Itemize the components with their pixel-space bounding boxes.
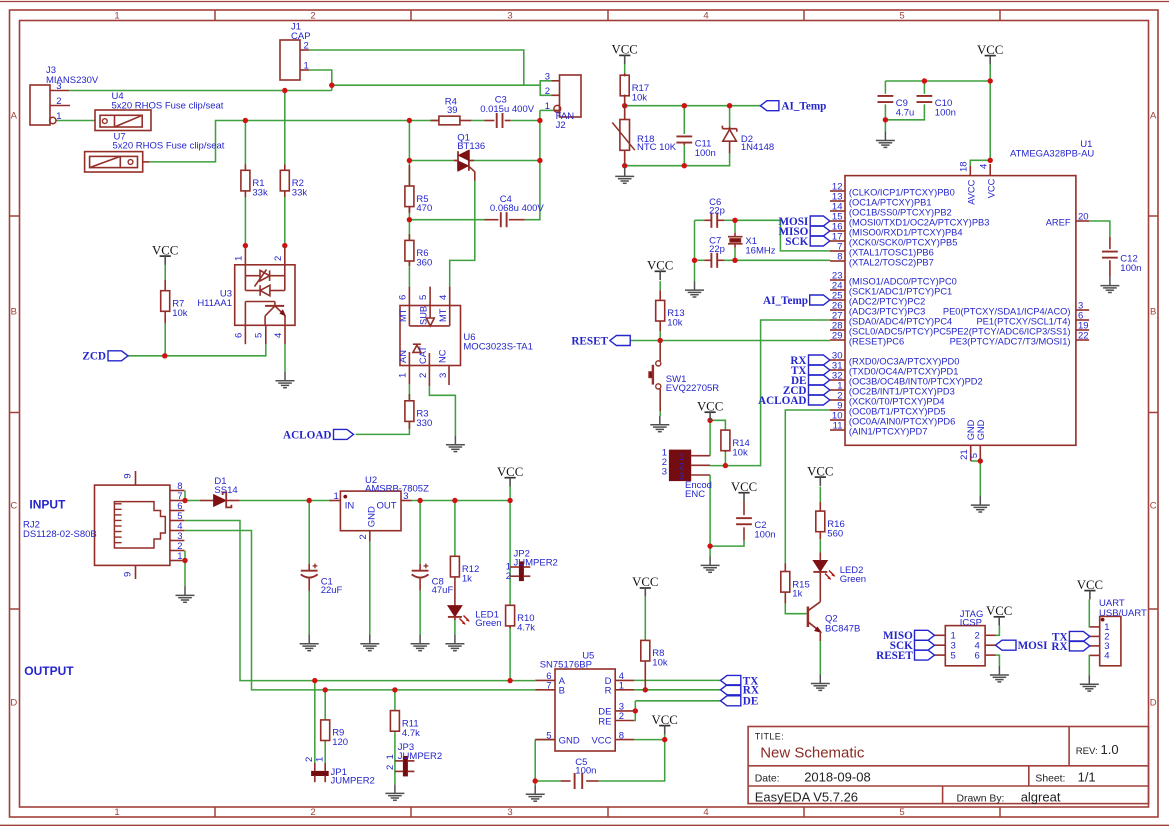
svg-text:MOC3023S-TA1: MOC3023S-TA1: [463, 342, 533, 353]
svg-text:470: 470: [416, 203, 432, 214]
fuse U7: [85, 132, 225, 172]
svg-text:20: 20: [1078, 212, 1089, 223]
svg-text:3: 3: [507, 807, 512, 818]
svg-text:AVCC: AVCC: [966, 179, 976, 204]
wire R12 top: [454, 501, 456, 557]
svg-text:B: B: [11, 306, 17, 317]
capacitor C10: [917, 96, 956, 118]
wire XTAL1 to U1.7: [735, 220, 830, 251]
svg-text:(SDA0/ADC4/PTCY)PC4: (SDA0/ADC4/PTCY)PC4: [849, 317, 952, 327]
svg-text:1k: 1k: [462, 574, 472, 585]
net flag DE: [809, 375, 830, 385]
wire AVCC jog: [970, 160, 990, 165]
junction dot: [162, 353, 167, 358]
svg-text:PE2(PTCY/ADC6/ICP3/SS1): PE2(PTCY/ADC6/ICP3/SS1): [951, 327, 1070, 337]
svg-text:8: 8: [837, 252, 842, 263]
svg-text:0.068u 400V: 0.068u 400V: [490, 203, 545, 214]
wire U5.VCC: [634, 739, 665, 741]
svg-text:2: 2: [619, 711, 624, 722]
junction dot: [407, 158, 412, 163]
wire J1.2: [309, 50, 524, 85]
wire Q1 gate to U6.4: [450, 181, 475, 287]
svg-text:SS14: SS14: [214, 485, 237, 496]
svg-text:2: 2: [545, 86, 550, 97]
svg-text:OUT: OUT: [376, 501, 396, 512]
svg-text:(OC2B/INT1/PTCXY)PD3: (OC2B/INT1/PTCXY)PD3: [849, 387, 955, 397]
wire RJ2.5 bus A: [184, 521, 535, 681]
svg-text:4: 4: [273, 333, 284, 338]
svg-text:C: C: [1150, 500, 1157, 511]
net flag TX uart: [1069, 631, 1089, 641]
capacitor C7: [704, 236, 725, 268]
svg-text:VCC: VCC: [977, 43, 1003, 57]
connector J1 CAP: [280, 22, 311, 81]
svg-text:(XTAL2/TOSC2)PB7: (XTAL2/TOSC2)PB7: [849, 258, 934, 268]
svg-text:1: 1: [233, 256, 244, 261]
ground U6.2: [446, 436, 465, 452]
svg-text:5: 5: [418, 295, 429, 300]
svg-text:2: 2: [418, 373, 429, 378]
svg-text:(OC0B/T1/PTCXY)PD5: (OC0B/T1/PTCXY)PD5: [849, 407, 946, 417]
ground Q2: [811, 675, 830, 691]
ground UART: [1080, 675, 1099, 691]
wire XTAL2 to U1.8: [724, 259, 830, 261]
wire RJ2.1 to gnd: [184, 561, 186, 587]
junction dot: [988, 158, 993, 163]
svg-text:360: 360: [416, 258, 432, 269]
svg-text:New Schematic: New Schematic: [760, 744, 865, 761]
wire to R5 (gap): [408, 166, 410, 186]
svg-text:ENC: ENC: [685, 489, 705, 500]
svg-text:GND: GND: [366, 506, 377, 527]
wire R18 to gnd net: [624, 150, 626, 167]
junction dot: [537, 158, 542, 163]
wire GND stub join: [535, 739, 555, 741]
wire RESET to U1.29: [630, 340, 830, 342]
wire R16 to LED2: [819, 539, 821, 553]
wire to Q1 MT: [409, 160, 457, 162]
svg-text:2018-09-08: 2018-09-08: [804, 770, 871, 785]
wire VCC to C5: [599, 734, 665, 781]
wire U1 GND down: [979, 461, 981, 496]
wire X1 bottom: [734, 248, 736, 261]
led LED1 Green: [448, 606, 502, 629]
svg-text:PE1(PTCXY/SCL1/T4): PE1(PTCXY/SCL1/T4): [976, 317, 1070, 327]
svg-text:SN75176BP: SN75176BP: [540, 660, 592, 671]
svg-text:3: 3: [545, 71, 550, 82]
resistor R5: [405, 165, 432, 214]
svg-text:39: 39: [447, 105, 458, 116]
capacitor C9: [878, 96, 915, 118]
wire C10 top: [923, 81, 925, 94]
svg-text:100n: 100n: [935, 107, 956, 118]
wire Q1 to FAN net: [470, 160, 540, 162]
wire C7 left gap: [695, 259, 705, 261]
svg-text:22uF: 22uF: [321, 585, 343, 596]
capacitor C4: [485, 194, 545, 227]
wire down to R1: [244, 121, 246, 166]
wire FAN.1 down to C4: [525, 110, 540, 219]
wire to FAN.2: [540, 85, 551, 95]
svg-text:1: 1: [385, 754, 396, 759]
svg-text:1/1: 1/1: [1078, 770, 1096, 785]
svg-text:(OC3B/OC4B/INT0/PTCXY)PD2: (OC3B/OC4B/INT0/PTCXY)PD2: [849, 377, 983, 387]
U1 right pins: [943, 212, 1089, 347]
wire J1.1: [309, 70, 332, 91]
svg-text:2: 2: [310, 807, 315, 818]
junction dot: [922, 78, 927, 83]
wire D2 top: [729, 106, 731, 127]
svg-text:9: 9: [123, 572, 134, 577]
svg-text:3: 3: [679, 471, 684, 482]
capacitor C3: [480, 95, 535, 128]
svg-text:11: 11: [833, 421, 843, 432]
ground C12: [1100, 277, 1119, 293]
wire R17 to R18: [624, 95, 626, 120]
wire U2.GND to gnd: [369, 541, 371, 635]
junction dot: [417, 498, 422, 503]
svg-text:BT136: BT136: [457, 141, 485, 152]
svg-text:DE: DE: [743, 696, 759, 708]
capacitor C5: [561, 757, 599, 789]
net flag RX: [809, 355, 830, 365]
svg-text:SCK: SCK: [785, 236, 808, 248]
wire C10 bottom: [885, 104, 924, 119]
wire to gnd xtal: [694, 260, 696, 281]
wire R5R6 node to C4: [409, 219, 484, 221]
svg-text:100n: 100n: [575, 766, 596, 777]
diode D2 1N4148: [722, 126, 774, 154]
junction dot: [622, 103, 627, 108]
net flag MISO: [810, 226, 830, 236]
wire UART.1 to VCC: [1088, 599, 1091, 627]
ground C1: [300, 635, 319, 651]
svg-text:1: 1: [619, 681, 624, 692]
net flag SCK: [810, 236, 830, 246]
wire R3 to ACLOAD: [356, 421, 410, 434]
wire U7 to R4/C3 net: [149, 121, 430, 162]
wire C1 to gnd: [308, 591, 310, 636]
svg-text:EasyEDA V5.7.26: EasyEDA V5.7.26: [755, 789, 858, 804]
junction dot: [707, 418, 712, 423]
ground JP3: [385, 784, 404, 800]
junction dot: [723, 463, 728, 468]
junction dot: [182, 498, 187, 503]
wire RJ2.8 join: [184, 491, 186, 501]
junction dot: [732, 218, 737, 223]
svg-text:(MOSI0/TXD1/OC2A/PTCXY)PB3: (MOSI0/TXD1/OC2A/PTCXY)PB3: [849, 218, 990, 228]
wire ZCD to U3.5: [128, 344, 266, 356]
resistor R9: [321, 719, 348, 748]
svg-text:9: 9: [123, 474, 134, 479]
svg-text:5: 5: [546, 730, 551, 741]
junction dot: [682, 163, 687, 168]
wire R10 to bus A: [509, 626, 511, 680]
svg-text:18: 18: [959, 161, 970, 172]
wire to AI_Temp flag: [625, 105, 761, 107]
svg-text:ACLOAD: ACLOAD: [283, 429, 331, 441]
net flag MISO jtag: [915, 630, 935, 640]
connector J2 FAN: [545, 71, 581, 131]
wire C8 top: [419, 501, 421, 565]
wire R4 to C3: [471, 120, 484, 122]
junction dot: [643, 687, 648, 692]
svg-text:D: D: [1150, 697, 1157, 708]
svg-text:AN: AN: [398, 350, 408, 363]
svg-text:330: 330: [416, 418, 432, 429]
wire to Q1/R5 node: [408, 121, 410, 165]
junction dot: [537, 118, 542, 123]
resistor R17: [620, 73, 649, 106]
svg-text:A: A: [11, 110, 18, 121]
ground LED1: [445, 635, 464, 651]
wire C6 C7 left: [694, 220, 696, 260]
svg-text:4: 4: [703, 807, 708, 818]
svg-text:1: 1: [177, 551, 182, 562]
svg-text:(AIN1/PTCXY)PD7: (AIN1/PTCXY)PD7: [849, 427, 928, 437]
svg-text:10k: 10k: [667, 318, 683, 329]
svg-text:IN: IN: [345, 501, 355, 512]
svg-text:(SCK1/ADC1/PTCY)PC1: (SCK1/ADC1/PTCY)PC1: [849, 287, 952, 297]
ground JTAG: [990, 666, 1009, 682]
svg-text:6: 6: [975, 650, 980, 661]
wire U1 GND join: [971, 460, 981, 462]
wire X1 top: [734, 220, 736, 232]
ground RJ2: [176, 586, 195, 602]
wire VCC to R16: [819, 487, 821, 503]
svg-text:22p: 22p: [709, 244, 725, 255]
svg-text:ACLOAD: ACLOAD: [758, 395, 806, 407]
svg-text:D: D: [10, 697, 17, 708]
net flag ACLOAD left: [334, 429, 354, 439]
wire VCC to JP2 R10: [509, 487, 511, 605]
wire R2 to U3.2: [284, 196, 286, 247]
svg-text:ICSP: ICSP: [960, 618, 982, 629]
svg-text:RE: RE: [598, 716, 611, 727]
net flag MOSI: [810, 216, 830, 226]
net flag SCK jtag: [915, 640, 935, 650]
svg-text:(RESET)PC6: (RESET)PC6: [849, 337, 904, 347]
fuse U4: [95, 91, 224, 131]
jumper JP3: [385, 742, 442, 776]
wire R13 bottom: [659, 331, 661, 340]
svg-text:USB/UART: USB/UART: [1099, 608, 1147, 619]
resistor R11: [390, 710, 420, 739]
net flag DE u5: [721, 696, 741, 706]
svg-text:1: 1: [114, 807, 119, 818]
net flag TX: [809, 365, 830, 375]
wire D1 to U2.IN: [240, 500, 330, 502]
wire JTAG.6 to gnd: [996, 655, 1000, 666]
svg-text:10k: 10k: [172, 308, 188, 319]
svg-text:10k: 10k: [732, 447, 748, 458]
wire R11 to gnd: [394, 732, 396, 785]
svg-text:VCC: VCC: [986, 178, 996, 198]
svg-text:5x20 RHOS Fuse clip/seat: 5x20 RHOS Fuse clip/seat: [112, 101, 224, 112]
wire JTAG.2 to VCC: [996, 626, 1000, 636]
ground C8: [411, 635, 430, 651]
capacitor C1 22uF: [301, 564, 343, 596]
resistor R4: [431, 96, 472, 125]
svg-text:120: 120: [332, 737, 348, 748]
svg-text:VCC: VCC: [697, 399, 723, 413]
resistor R13: [656, 290, 685, 331]
wire R1 to U3.1: [244, 196, 246, 247]
wire ENC.3 down: [709, 475, 711, 546]
svg-text:(ADC2/PTCY)PC2: (ADC2/PTCY)PC2: [849, 297, 925, 307]
svg-text:2: 2: [385, 765, 396, 770]
svg-text:VCC: VCC: [652, 713, 678, 727]
svg-text:VCC: VCC: [1077, 578, 1103, 592]
wire C11 top: [683, 106, 685, 134]
ground R18: [615, 167, 634, 183]
ruler ticks: [214, 10, 216, 21]
junction dot: [622, 163, 627, 168]
svg-text:A: A: [1150, 110, 1157, 121]
junction dot: [633, 708, 638, 713]
wire DE RE tie: [634, 701, 635, 721]
svg-text:3: 3: [507, 11, 512, 22]
junction dot: [533, 778, 538, 783]
junction dot: [282, 88, 287, 93]
junction dot: [243, 243, 248, 248]
wire VCC to R7: [164, 265, 166, 280]
svg-text:VCC: VCC: [647, 259, 673, 273]
wire RJ2.7 to D1: [185, 500, 200, 502]
net flag ZCD u1: [809, 385, 830, 395]
ground U2: [360, 635, 379, 651]
wire C9 top: [884, 81, 886, 94]
svg-text:Drawn By:: Drawn By:: [957, 793, 1005, 804]
resistor R15: [781, 564, 810, 604]
net flag RX uart: [1069, 641, 1089, 651]
capacitor C8 47uF: [412, 564, 454, 596]
svg-text:MIANS230V: MIANS230V: [46, 75, 99, 86]
svg-text:5: 5: [969, 453, 980, 458]
svg-text:3: 3: [56, 81, 61, 92]
ground ENC: [701, 556, 720, 572]
svg-text:AREF: AREF: [1046, 218, 1071, 228]
junction dot: [182, 558, 187, 563]
svg-text:4: 4: [703, 11, 708, 22]
ground C5: [526, 785, 545, 801]
sheet edge top: [0, 1, 1169, 3]
svg-text:(ADC3/PTCY)PC3: (ADC3/PTCY)PC3: [849, 307, 925, 317]
svg-text:2: 2: [304, 41, 309, 52]
svg-text:RESET: RESET: [876, 650, 913, 662]
wire SW1 to gnd: [659, 411, 661, 416]
svg-text:SUB: SUB: [418, 306, 428, 325]
U1 left pins PC: [830, 271, 957, 347]
svg-text:10k: 10k: [632, 92, 648, 103]
junction dot: [988, 78, 993, 83]
svg-text:4.7u: 4.7u: [896, 107, 915, 118]
svg-text:2: 2: [358, 534, 369, 539]
optocoupler U3 H11AA1: [197, 247, 295, 345]
svg-text:16MHz: 16MHz: [745, 245, 775, 256]
resistor R10: [506, 605, 536, 634]
connector RJ2 DS1128-02-S80B: [23, 471, 184, 579]
svg-text:100n: 100n: [754, 530, 775, 541]
wire R4 left gap: [431, 120, 439, 122]
wire to FAN.3: [540, 81, 551, 85]
svg-text:VCC: VCC: [591, 735, 611, 746]
svg-text:5x20 RHOS Fuse clip/seat: 5x20 RHOS Fuse clip/seat: [113, 141, 225, 152]
junction dot: [978, 458, 983, 463]
junction dot: [282, 243, 287, 248]
svg-text:CAT: CAT: [418, 346, 428, 364]
svg-text:TITLE:: TITLE:: [755, 732, 784, 742]
wire R5 to R6: [408, 207, 410, 241]
svg-text:AI_Temp: AI_Temp: [763, 295, 808, 307]
triac Q1 BT136: [454, 133, 485, 181]
svg-text:4.7k: 4.7k: [517, 623, 535, 634]
net flag RESET jtag: [915, 650, 935, 660]
U1 left pins PB: [830, 182, 989, 268]
junction dot: [658, 338, 663, 343]
svg-text:DS1128-02-S80B: DS1128-02-S80B: [23, 529, 97, 540]
title block: [748, 727, 1148, 805]
svg-text:4.7k: 4.7k: [402, 728, 420, 739]
junction dot: [392, 687, 397, 692]
resistor R8: [641, 640, 668, 689]
regulator U2 AMSRB-7805Z: [329, 475, 429, 541]
svg-text:Green: Green: [840, 574, 866, 585]
svg-text:GND: GND: [976, 419, 986, 440]
svg-text:MOSI: MOSI: [1018, 640, 1048, 652]
svg-text:(TXD0/OC4A/PTCXY)PD1: (TXD0/OC4A/PTCXY)PD1: [849, 367, 959, 377]
wire bus B to R11: [394, 690, 396, 710]
svg-text:(MISO0/RXD1/PTCXY)PB4: (MISO0/RXD1/PTCXY)PB4: [849, 228, 963, 238]
wire DE flag: [635, 700, 720, 702]
junction dot: [507, 498, 512, 503]
connector J3 MIANS230V: [30, 65, 99, 125]
wire VCC col to U1: [989, 64, 991, 160]
svg-text:4: 4: [1104, 651, 1109, 662]
svg-text:INPUT: INPUT: [29, 498, 66, 512]
junction dot: [452, 498, 457, 503]
svg-text:29: 29: [832, 331, 843, 342]
connector JTAG ICSP: [935, 609, 996, 666]
svg-text:VCC: VCC: [612, 43, 638, 57]
junction dot: [243, 118, 248, 123]
wire U3.4 to gnd: [284, 344, 286, 372]
svg-text:VCC: VCC: [152, 243, 178, 257]
svg-text:J2: J2: [556, 120, 566, 131]
ground C9: [876, 132, 895, 148]
junction dot: [312, 678, 317, 683]
svg-text:33k: 33k: [292, 188, 308, 199]
sheet edge bottom: [0, 824, 1169, 826]
U1 left pins PD: [830, 351, 983, 437]
wire C5 to U5.GND: [534, 740, 536, 781]
resistor R2: [280, 165, 307, 199]
junction dot: [329, 83, 334, 88]
wire down to R2: [284, 91, 286, 165]
svg-text:OUTPUT: OUTPUT: [24, 664, 74, 678]
svg-text:VCC: VCC: [497, 465, 523, 479]
capacitor C2: [736, 502, 775, 541]
wire AC line to FAN: [332, 84, 540, 86]
ground C6 C7: [685, 281, 704, 297]
junction dot: [507, 678, 512, 683]
wire VCC to R17: [624, 64, 626, 76]
junction dot: [307, 498, 312, 503]
svg-text:algreat: algreat: [1021, 789, 1061, 804]
svg-text:RX: RX: [1051, 641, 1067, 653]
wire U6.2 to gnd: [429, 386, 455, 436]
resistor R14: [721, 430, 750, 459]
